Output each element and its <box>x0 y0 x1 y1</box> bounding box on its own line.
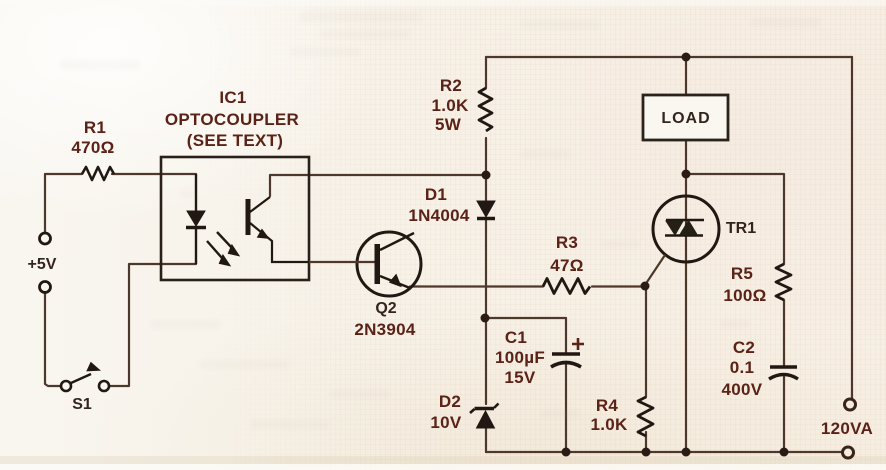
svg-text:470Ω: 470Ω <box>71 138 114 157</box>
wire R4 branch <box>645 287 647 453</box>
diode D1 triangle <box>477 201 495 217</box>
capacitor C2 bottom curved plate <box>769 375 798 380</box>
svg-text:120VA: 120VA <box>821 419 873 438</box>
svg-text:S1: S1 <box>72 396 92 413</box>
TR1 right triangle (up) <box>680 221 697 235</box>
junction node R4 bottom <box>642 448 651 457</box>
svg-text:D2: D2 <box>439 392 461 411</box>
junction node R2/D1/collector <box>482 171 491 180</box>
capacitor C1 bottom curved plate <box>551 363 581 368</box>
Q2 emitter diagonal <box>380 276 410 288</box>
svg-text:100Ω: 100Ω <box>723 286 766 305</box>
svg-text:TR1: TR1 <box>726 220 756 237</box>
junction node R3/gate/R4 <box>641 282 650 291</box>
Q2 collector diagonal <box>380 233 414 250</box>
wire TR1 vertical <box>685 57 687 452</box>
switch S1 right contact <box>99 381 109 391</box>
IC1 phototransistor emitter diagonal <box>250 223 309 262</box>
svg-text:1.0K: 1.0K <box>590 415 628 434</box>
capacitor C2 top plate <box>770 365 797 368</box>
wire bottom rail <box>486 451 842 453</box>
Q2 emitter arrowhead <box>391 276 401 286</box>
capacitor C1 top plate <box>552 352 580 356</box>
diode D1 cathode bar <box>477 217 495 220</box>
svg-text:15V: 15V <box>504 368 536 387</box>
resistor R4 zigzag <box>638 397 653 436</box>
wire Q2 emitter to R3 to gate node <box>410 285 645 287</box>
Q2 base bar <box>375 244 381 284</box>
TR1 gate lead <box>645 255 665 285</box>
svg-text:D1: D1 <box>425 185 447 204</box>
TR1 top bar <box>666 219 704 222</box>
zener D2 triangle <box>477 411 495 428</box>
terminal 120V upper <box>845 399 856 410</box>
svg-text:1N4004: 1N4004 <box>408 206 470 225</box>
IC1 LED cathode line <box>195 229 197 264</box>
TR1 left triangle (down) <box>666 221 683 235</box>
IC1 light arrow upper <box>217 232 232 248</box>
wire right edge down to terminal <box>851 57 853 398</box>
IC1 light arrow lower <box>207 241 222 258</box>
svg-text:R2: R2 <box>440 76 462 95</box>
svg-text:10V: 10V <box>430 413 462 432</box>
IC1 phototransistor emitter arrowhead <box>258 230 268 238</box>
svg-text:0.1: 0.1 <box>730 358 755 377</box>
wire R1 run left <box>45 174 82 386</box>
svg-text:R4: R4 <box>596 396 619 415</box>
IC1 phototransistor base bar <box>246 199 251 235</box>
svg-text:47Ω: 47Ω <box>550 256 583 275</box>
junction node TR1 bottom <box>682 448 691 457</box>
switch S1 lever <box>71 374 91 383</box>
wire top rail <box>486 56 852 58</box>
terminal 120V lower <box>843 447 854 458</box>
terminal +5V lower <box>40 282 51 293</box>
switch S1 left contact <box>61 381 71 391</box>
svg-text:C2: C2 <box>733 338 755 357</box>
IC1 LED anode line <box>195 174 197 211</box>
LOAD box <box>643 95 728 140</box>
junction node LOAD/TR1/snubber <box>682 170 691 179</box>
junction node C1 bottom <box>562 448 571 457</box>
zener D2 bar with ticks <box>475 407 495 411</box>
switch S1 lever arrowhead <box>88 363 100 371</box>
svg-text:OPTOCOUPLER: OPTOCOUPLER <box>165 110 299 129</box>
wire S1 to optocoupler LED cathode pin <box>110 264 196 386</box>
svg-text:R5: R5 <box>731 264 753 283</box>
svg-text:1.0K: 1.0K <box>431 96 469 115</box>
wire D2 vertical <box>485 318 487 452</box>
svg-text:2N3904: 2N3904 <box>354 320 416 339</box>
IC1 LED cathode bar <box>186 226 206 229</box>
capacitor C1 plus sign <box>572 338 584 350</box>
IC1 phototransistor collector diagonal <box>250 197 270 212</box>
svg-text:C1: C1 <box>505 328 527 347</box>
resistor R3 zigzag <box>543 279 590 294</box>
junction node D1/C1 branch <box>481 314 490 323</box>
wire snubber R5/C2 branch <box>686 174 784 452</box>
junction node top rail / LOAD <box>682 53 691 62</box>
wire R2 branch vertical <box>485 57 487 175</box>
terminal +5V upper <box>40 233 51 244</box>
IC1 LED triangle <box>187 211 205 226</box>
svg-text:400V: 400V <box>722 380 763 399</box>
junction node C2 bottom <box>780 448 789 457</box>
svg-text:(SEE TEXT): (SEE TEXT) <box>187 131 284 150</box>
wire R1 to box <box>112 173 196 175</box>
optocoupler IC1 box <box>161 157 309 280</box>
resistor R1 zigzag <box>82 167 114 180</box>
wire D1 vertical <box>485 175 487 318</box>
resistor R2 zigzag <box>479 88 492 131</box>
svg-text:R1: R1 <box>84 118 106 137</box>
svg-text:+5V: +5V <box>28 256 57 273</box>
svg-text:R3: R3 <box>556 233 578 252</box>
Q2 base wire <box>309 261 375 263</box>
transistor Q2 circle <box>357 232 421 296</box>
svg-text:5W: 5W <box>435 115 462 134</box>
svg-text:LOAD: LOAD <box>661 110 710 127</box>
wire collector run from optocoupler to D1 node <box>270 175 486 196</box>
svg-text:IC1: IC1 <box>219 88 246 107</box>
triac TR1 circle <box>653 196 719 262</box>
svg-text:Q2: Q2 <box>375 300 396 317</box>
svg-text:100µF: 100µF <box>495 348 545 367</box>
resistor R5 zigzag <box>776 264 791 300</box>
wire branch to C1 <box>486 318 566 452</box>
TR1 bottom bar <box>665 234 703 237</box>
